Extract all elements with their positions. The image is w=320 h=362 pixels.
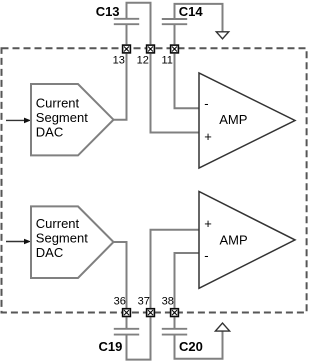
svg-text:Segment: Segment (36, 110, 88, 125)
input arrow into DAC1 (6, 118, 31, 124)
svg-text:C20: C20 (179, 339, 203, 354)
ground symbol (216, 32, 228, 39)
svg-text:AMP: AMP (220, 233, 248, 248)
svg-text:+: + (204, 129, 212, 144)
wire: pin 37 to AMP2 + input (151, 230, 200, 308)
capacitor C14 (162, 19, 187, 24)
svg-text:Segment: Segment (36, 230, 88, 245)
IC boundary dashed box (2, 48, 307, 312)
wire: pin 36 through C19 to pin 37 bottom loop (126, 317, 152, 359)
svg-text:12: 12 (137, 55, 149, 67)
wire: pin 38 through C20 to arrow (174, 317, 224, 359)
Current Segment DAC 1 block (31, 84, 114, 155)
svg-text:C14: C14 (179, 4, 204, 19)
pin 11 (161, 45, 178, 66)
svg-text:AMP: AMP (219, 112, 247, 127)
wire: C13 top loop horizontal (pin13 to pin12) (126, 3, 152, 45)
svg-text:-: - (204, 96, 208, 111)
pin 13 (113, 45, 131, 66)
svg-text:DAC: DAC (36, 245, 63, 260)
wire: C14 to ground loop (174, 4, 224, 44)
svg-text:38: 38 (162, 296, 174, 308)
svg-text:37: 37 (138, 296, 150, 308)
wire: pin 11 to AMP1 - input (175, 54, 200, 109)
svg-text:Current: Current (36, 96, 80, 111)
pin 12 (137, 45, 155, 66)
pin 38 (162, 296, 179, 317)
wire: pin 12 to AMP1 + input (151, 54, 200, 133)
svg-text:-: - (204, 248, 208, 263)
pin 37 (138, 296, 155, 317)
Current Segment DAC 2 block (31, 206, 114, 278)
capacitor C13 (114, 19, 139, 24)
capacitor C20 (162, 329, 187, 335)
wire: pin 38 to AMP2 - input (175, 253, 200, 308)
pin 36 (114, 296, 131, 317)
op-amp AMP1 (199, 73, 295, 168)
supply arrow symbol (up) (215, 323, 229, 331)
svg-text:C13: C13 (96, 4, 120, 19)
op-amp AMP2 (199, 192, 295, 289)
svg-text:+: + (204, 216, 212, 231)
capacitor C19 (114, 329, 139, 335)
svg-text:DAC: DAC (36, 125, 63, 140)
svg-text:C19: C19 (99, 339, 123, 354)
svg-text:Current: Current (36, 216, 80, 231)
svg-text:13: 13 (113, 55, 125, 67)
input arrow into DAC2 (6, 239, 31, 245)
wire: DAC1 output to pin 13 (114, 54, 127, 120)
wire: DAC2 output to pin 36 (114, 242, 127, 308)
svg-text:36: 36 (114, 296, 126, 308)
svg-text:11: 11 (161, 55, 172, 67)
